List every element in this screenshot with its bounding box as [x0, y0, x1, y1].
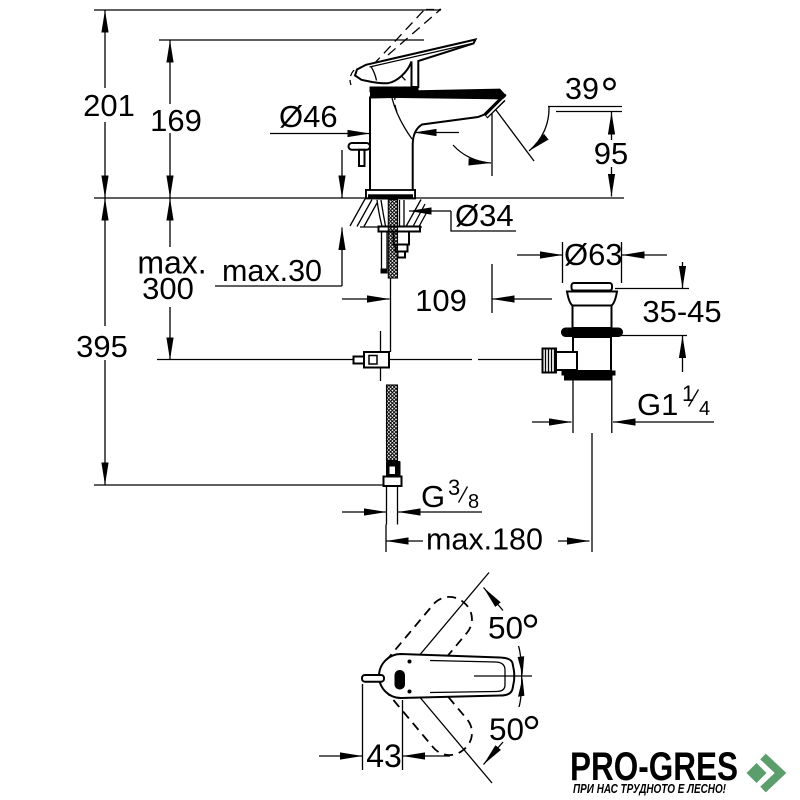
- hose centerline mid: [390, 278, 392, 352]
- svg-text:395: 395: [76, 329, 128, 364]
- svg-text:Ø63: Ø63: [564, 237, 623, 272]
- swing arc: [519, 646, 522, 707]
- flow arc with arrow: [453, 145, 491, 163]
- mounting washer: [379, 227, 421, 232]
- svg-text:G: G: [421, 479, 445, 514]
- svg-text:Ø34: Ø34: [455, 198, 514, 233]
- 50deg leader arrow lower: [484, 742, 504, 765]
- dimension G3/8 arrows: [342, 511, 387, 513]
- rubber gasket: [561, 328, 623, 338]
- svg-text:8: 8: [468, 491, 479, 513]
- handle dots: [408, 660, 412, 664]
- spout outlet extension line x=492: [491, 112, 493, 313]
- dashed handle rotated down 50deg: [372, 647, 480, 764]
- flexible hose braided lower: [387, 385, 398, 461]
- svg-text:50: 50: [488, 610, 523, 646]
- svg-text:201: 201: [83, 88, 135, 123]
- dimension 109 line: [342, 298, 390, 300]
- seat flare: [567, 292, 617, 306]
- plug cap: [572, 283, 613, 291]
- dimension Ø46 leader arrows: [270, 133, 370, 135]
- pivot slot: [395, 670, 406, 690]
- svg-text:max.180: max.180: [426, 523, 543, 557]
- tailpipe: [573, 381, 612, 434]
- dimension 395 vertical line: [104, 198, 106, 326]
- body base plate: [366, 190, 415, 198]
- counter section hatching: [350, 199, 428, 227]
- counter top surface line: [94, 197, 624, 199]
- left pin: [362, 675, 384, 682]
- dashed handle rotated up 50deg: [372, 588, 480, 705]
- faucet body and spout: [366, 95, 504, 198]
- svg-text:1: 1: [682, 381, 694, 406]
- dashed raised lever: [373, 9, 425, 65]
- shank hose curved lines: [377, 200, 404, 226]
- svg-text:Ø46: Ø46: [279, 99, 338, 134]
- svg-text:3: 3: [448, 475, 460, 500]
- svg-text:39: 39: [565, 72, 599, 106]
- coupling rings: [562, 371, 616, 376]
- pop-up pull rod below counter: [382, 232, 388, 270]
- extension line top (201 reference): [94, 9, 441, 11]
- counter bottom line: [360, 226, 422, 228]
- svg-text:169: 169: [150, 103, 202, 138]
- dimension 35-45 arrows: [682, 262, 684, 289]
- flexible hose braided upper: [388, 200, 397, 279]
- lever base dark bar: [370, 87, 419, 93]
- mounting nut steps: [394, 232, 410, 245]
- svg-text:109: 109: [415, 283, 467, 318]
- dimension 43 extension lines: [363, 684, 403, 770]
- 50deg ray lower: [402, 676, 492, 783]
- handle axis line: [474, 675, 532, 677]
- body neck inner curve: [392, 98, 412, 139]
- hose end connector G3/8: [386, 461, 401, 477]
- aerator slant bar: [484, 97, 506, 119]
- dimension Ø34 leader: [409, 210, 451, 212]
- spout top plate: [370, 89, 507, 100]
- hose bottom reference line y=485: [94, 484, 384, 486]
- knob connector: [556, 352, 577, 370]
- knurled knob: [543, 349, 557, 373]
- svg-text:43: 43: [366, 738, 402, 774]
- svg-text:G1: G1: [637, 387, 678, 422]
- hose centerline bottom: [385, 525, 387, 553]
- dimension 43 line: [319, 755, 363, 757]
- 39deg arc with arrow: [529, 107, 549, 151]
- dimension G1 1/4 line: [532, 421, 572, 423]
- 50deg ray upper: [402, 573, 489, 677]
- dimension max.300 vertical line: [169, 198, 171, 247]
- dimension 39deg reference lines: [548, 107, 622, 112]
- svg-text:max.30: max.30: [222, 254, 322, 288]
- logo green diamond: [747, 763, 767, 783]
- svg-text:95: 95: [594, 136, 628, 171]
- faucet handle lever: [355, 40, 476, 88]
- rod fitting: [354, 357, 365, 364]
- svg-text:ПРИ НАС ТРУДНОТО Е ЛЕСНО!: ПРИ НАС ТРУДНОТО Е ЛЕСНО!: [573, 781, 727, 796]
- hose tube lower: [387, 486, 398, 525]
- dimension 35-45 extension lines: [615, 289, 689, 336]
- 50deg leader arrow upper: [484, 588, 504, 611]
- dimension max.180 line: [386, 540, 423, 542]
- svg-text:4: 4: [699, 398, 710, 420]
- dimension max.30 arrows: [341, 150, 343, 198]
- extension line (169 reference): [159, 39, 424, 41]
- pop-up waste: Ø63 dimension: [563, 242, 622, 283]
- 39deg angled ray: [496, 110, 534, 161]
- shank top dark bar: [376, 195, 398, 200]
- hidden cartridge dashes: [395, 93, 397, 112]
- solid handle top view: [379, 654, 514, 698]
- dimension 201 vertical line: [104, 10, 106, 88]
- logo green chevron: [763, 757, 781, 790]
- horizontal pull rod: [157, 359, 544, 361]
- svg-text:35-45: 35-45: [642, 294, 721, 329]
- lower body: [573, 337, 611, 371]
- handle inner line: [430, 661, 505, 693]
- dimension 169 vertical line: [169, 40, 171, 104]
- svg-text:50: 50: [489, 711, 524, 747]
- side hook: [349, 143, 371, 150]
- svg-text:300: 300: [142, 271, 194, 306]
- lever top edge inner line: [370, 44, 473, 68]
- upper body: [573, 306, 612, 329]
- waste centerline: [591, 433, 593, 552]
- dimension 95 vertical line: [611, 112, 613, 140]
